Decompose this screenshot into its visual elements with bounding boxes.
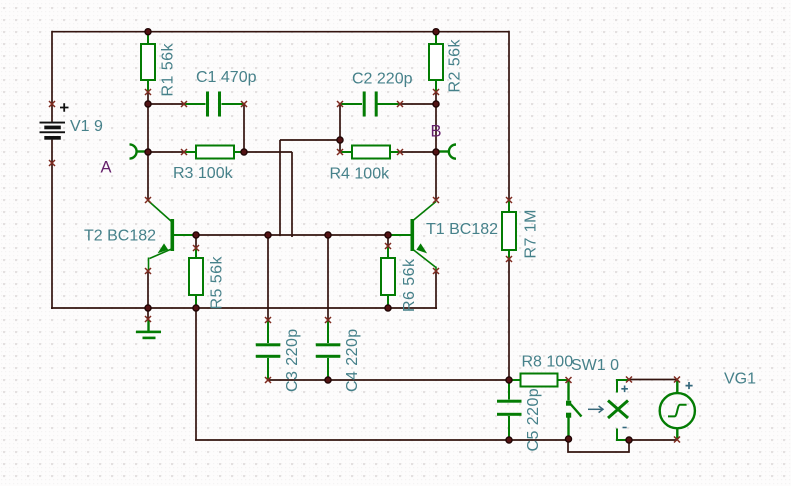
wire T1 emitter riser: [435, 271, 437, 309]
svg-text:R5 56k: R5 56k: [209, 256, 226, 310]
resistor R5: [189, 248, 203, 308]
transistor T2: [149, 201, 197, 271]
wire bottom rail y308: [51, 307, 437, 309]
svg-text:SW1 0: SW1 0: [571, 357, 619, 374]
wire left rail upper: [51, 31, 53, 122]
wire node B vertical: [435, 104, 437, 200]
capacitor C5: [497, 380, 522, 440]
resistor R8: [509, 374, 568, 387]
wire base rail y235: [196, 234, 388, 236]
resistor R1: [141, 32, 155, 92]
capacitor C3: [256, 320, 280, 380]
svg-text:R1 56k: R1 56k: [160, 43, 177, 97]
wire bottom rail y440: [195, 439, 569, 441]
wire R3 right to riser: [244, 151, 292, 153]
junction R6 bottom: [385, 305, 391, 311]
wire left drop x196: [195, 308, 197, 440]
junction node B: [433, 149, 439, 155]
wire left rail lower: [51, 140, 53, 309]
svg-text:C3 220p: C3 220p: [284, 328, 301, 392]
wire VG1 top link: [629, 379, 677, 381]
junction C4 top: [325, 232, 331, 238]
wire R5 top stub: [195, 235, 197, 248]
svg-text:C5 220p: C5 220p: [525, 388, 542, 452]
svg-text:R6 56k: R6 56k: [401, 258, 418, 312]
wire riser x280: [279, 140, 281, 236]
wire ground stub: [147, 308, 149, 320]
wire C2 right link: [400, 103, 436, 105]
switch arrow: [588, 406, 603, 413]
svg-text:C4 220p: C4 220p: [344, 328, 361, 392]
svg-text:R4 100k: R4 100k: [330, 166, 391, 183]
wire C1 right drop: [243, 104, 245, 152]
junction T2 base / R5 top: [193, 232, 199, 238]
node B: [439, 145, 457, 159]
wire C1 left link: [148, 103, 184, 105]
wire U detour: [568, 440, 629, 452]
wire C2R4 drop: [339, 104, 341, 152]
junction SW1 bottom: [565, 436, 571, 442]
svg-text:T2 BC182: T2 BC182: [84, 228, 156, 245]
capacitor C2: [340, 92, 400, 117]
svg-text:R2 56k: R2 56k: [447, 39, 464, 93]
resistor R3: [184, 146, 244, 159]
junction R1 top: [145, 29, 151, 35]
resistor R4: [340, 146, 400, 159]
svg-text:C1 470p: C1 470p: [196, 69, 257, 86]
svg-text:T1 BC182: T1 BC182: [426, 221, 498, 238]
svg-text:R8 100: R8 100: [522, 354, 574, 371]
junction R3 right: [241, 149, 247, 155]
wire top rail: [52, 31, 509, 33]
resistor R6: [381, 247, 395, 308]
wire R2 bottom stub: [435, 92, 437, 104]
junction node A: [145, 149, 151, 155]
junction R1 bottom / C1: [145, 101, 151, 107]
junction R2 bottom / C2: [433, 101, 439, 107]
wire C3 top drop: [267, 235, 269, 320]
wire R4 right link: [400, 151, 436, 153]
switch SW1: [566, 380, 582, 438]
ground: [136, 320, 161, 339]
junction R7/R8/C5: [506, 377, 512, 383]
svg-text:R3 100k: R3 100k: [173, 165, 234, 182]
junction VG1 minus net: [626, 437, 632, 443]
wire riser x292: [291, 152, 293, 237]
junction C2/R4 left: [337, 137, 343, 143]
capacitor C4: [316, 320, 341, 380]
controlled switch X: [608, 380, 629, 440]
generator VG1: [660, 380, 695, 440]
wire right rail lower: [508, 260, 510, 380]
wire node A vertical: [147, 104, 149, 200]
wire R1 bottom stub: [147, 92, 149, 104]
svg-text:B: B: [431, 123, 442, 141]
junction R5 bottom: [193, 305, 199, 311]
svg-text:A: A: [101, 159, 112, 177]
node A: [130, 144, 147, 158]
wire right rail upper: [508, 31, 510, 200]
junction C3 top: [265, 232, 271, 238]
wire VG1 bottom link: [629, 439, 677, 441]
resistor R7: [502, 200, 516, 260]
svg-text:R7 1M: R7 1M: [523, 209, 540, 258]
transistor T1: [388, 202, 436, 272]
resistor R2: [429, 32, 443, 92]
junction R2 top: [433, 29, 439, 35]
wire node A to R3: [148, 151, 184, 153]
wire C4 top drop: [327, 235, 329, 320]
svg-text:VG1: VG1: [724, 371, 756, 388]
terminal marks: [49, 101, 55, 107]
junction T1 base / R6 top: [385, 232, 391, 238]
battery V1: [40, 103, 69, 140]
svg-text:C2 220p: C2 220p: [352, 71, 413, 88]
capacitor C1: [184, 92, 244, 117]
junction T2 emitter: [145, 305, 151, 311]
wire bottom rail y380: [268, 379, 509, 381]
svg-text:V1 9: V1 9: [70, 118, 103, 135]
junction C4 bottom: [325, 377, 331, 383]
wire R6 top stub: [387, 235, 389, 247]
junction C5 bottom: [506, 437, 512, 443]
wire T2 emitter drop: [147, 271, 149, 308]
wire cross link y140: [280, 139, 340, 141]
